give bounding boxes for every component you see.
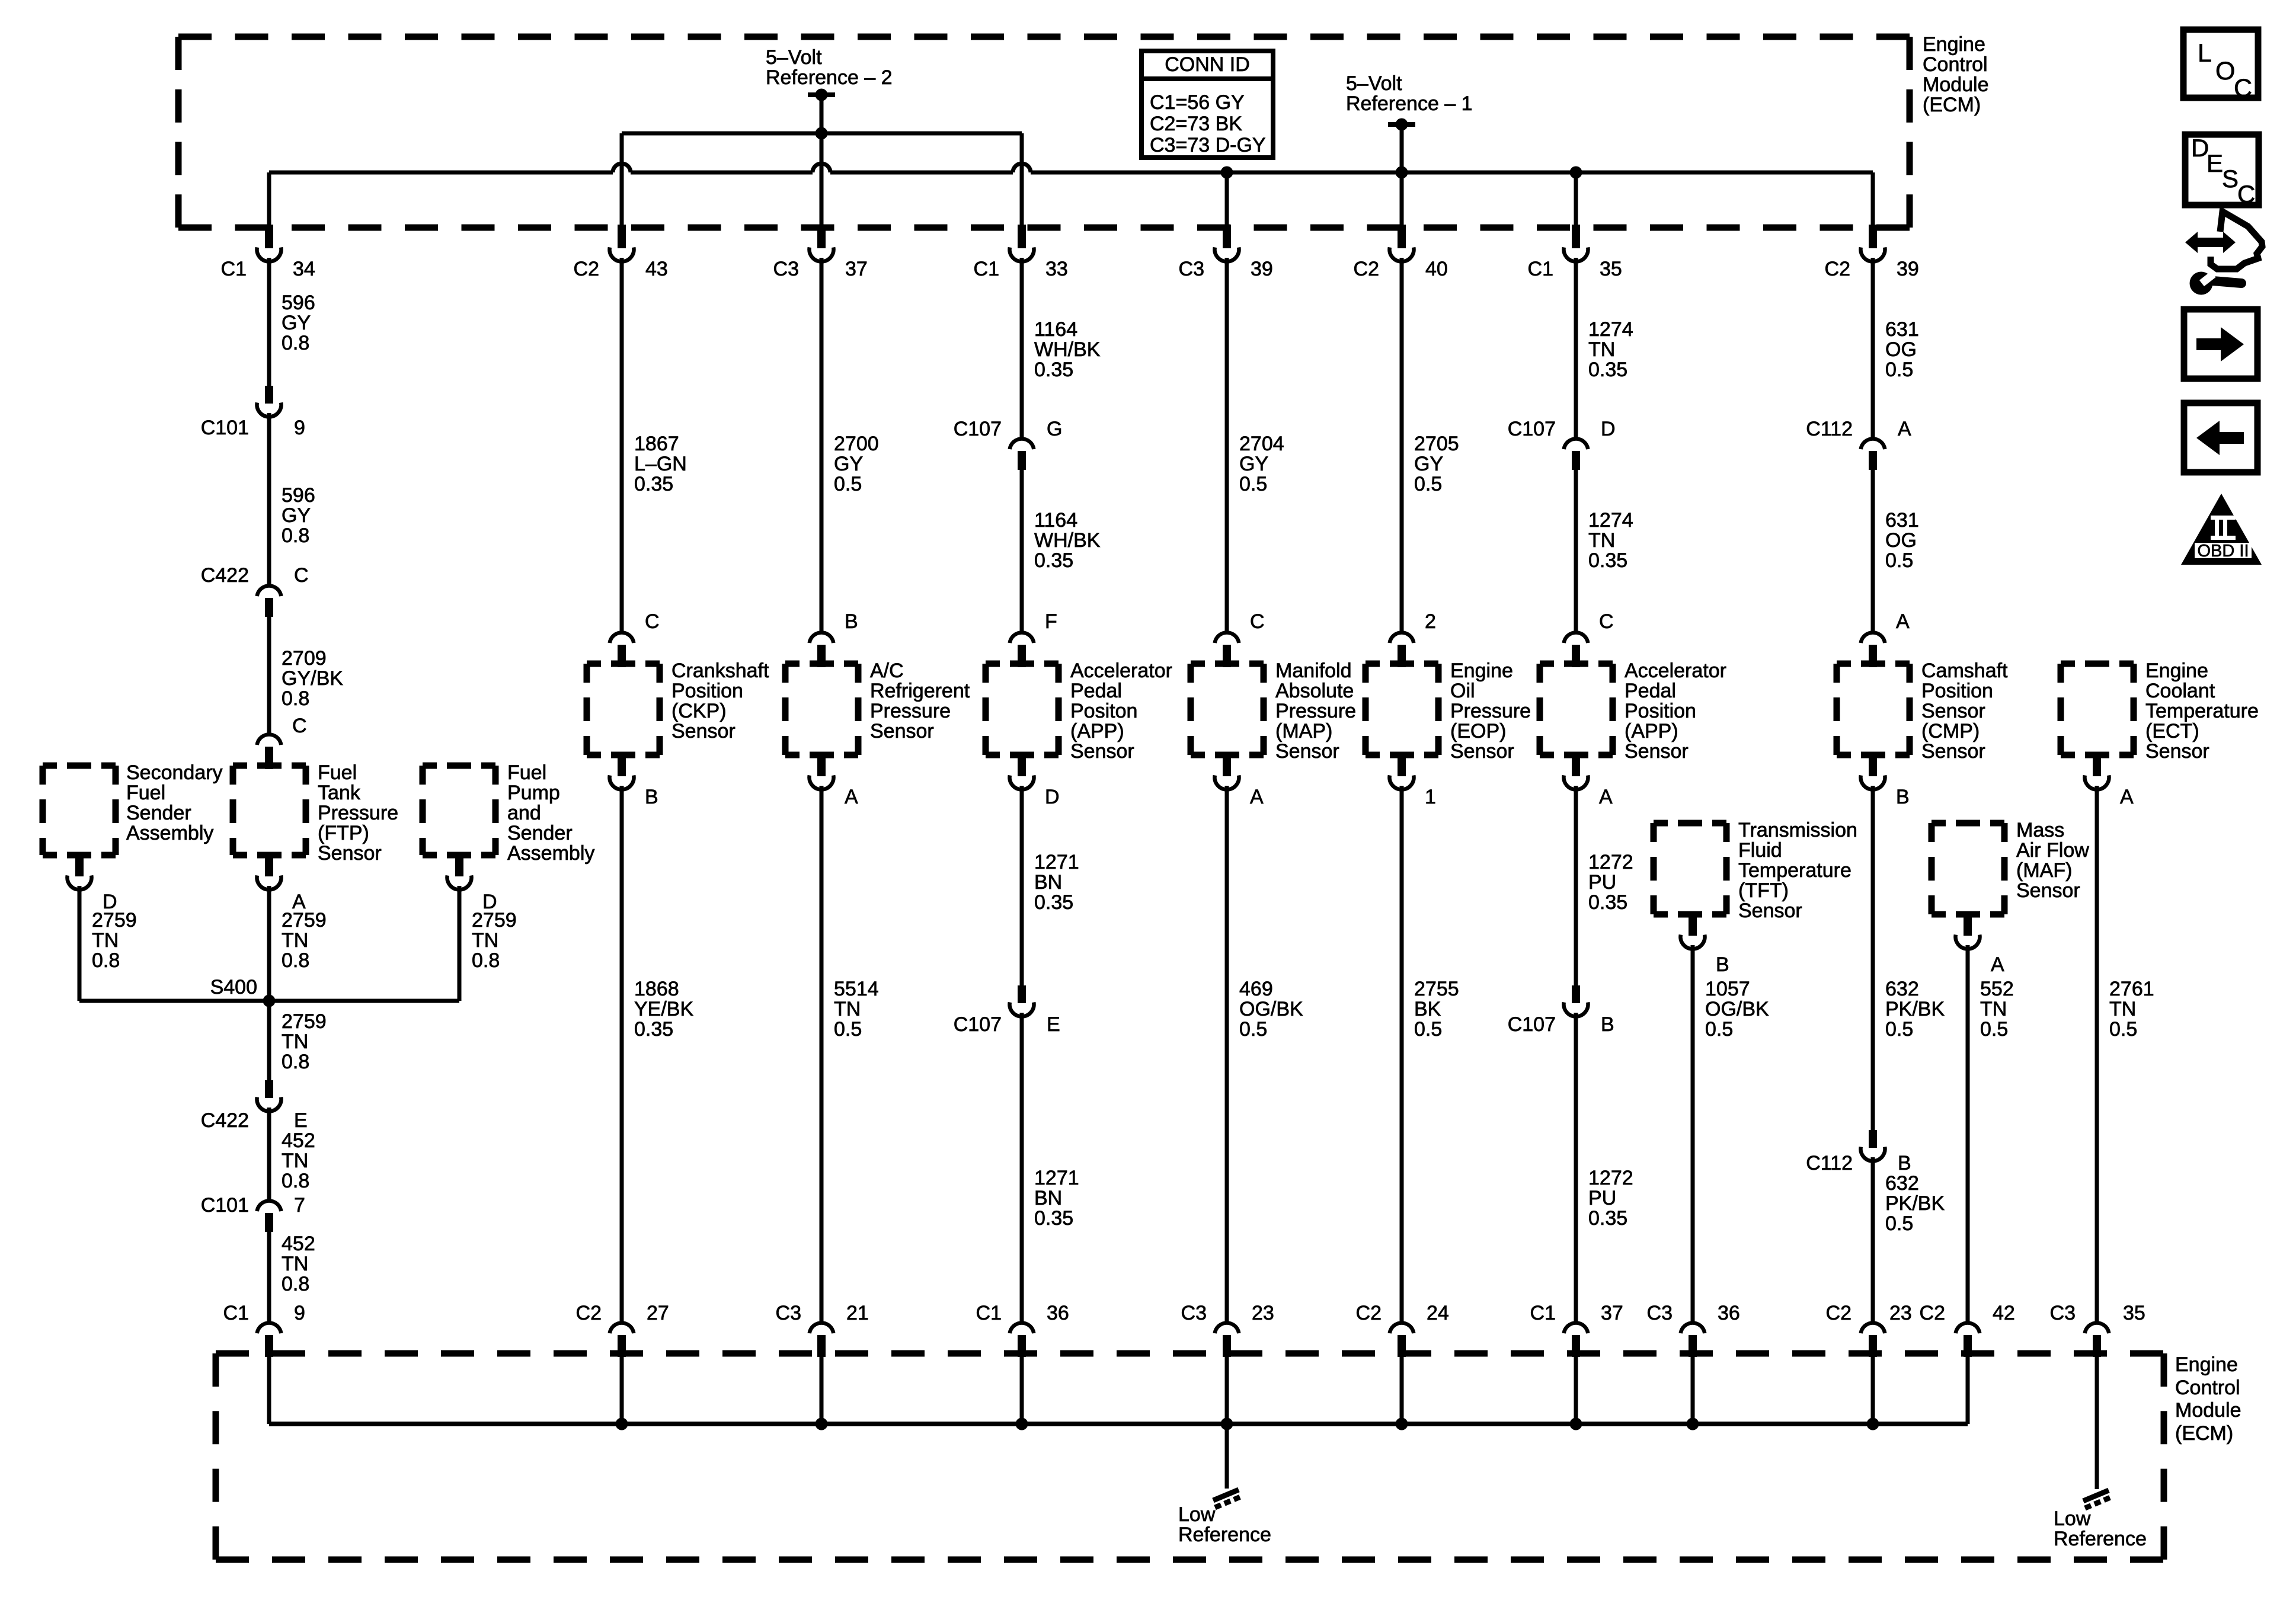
wire TFT to ECM C3-36 [1691, 945, 1695, 1322]
svg-text:C2: C2 [1825, 258, 1850, 280]
svg-text:0.35: 0.35 [1034, 1207, 1073, 1230]
svg-text:0.8: 0.8 [282, 1170, 309, 1192]
svg-text:23: 23 [1252, 1302, 1274, 1324]
svg-text:C1: C1 [1530, 1302, 1556, 1324]
svg-text:0.8: 0.8 [282, 687, 309, 710]
wire col1 C101 to C422 [267, 413, 271, 585]
Engine Coolant Temperature (ECT) Sensor dashed box [2061, 661, 2134, 667]
svg-text:C101: C101 [201, 1194, 249, 1217]
svg-text:C112: C112 [1806, 1152, 1853, 1174]
icon DESC box [2185, 134, 2259, 208]
connector pin C (FTP sensor entry) [257, 734, 282, 769]
svg-text:27: 27 [647, 1302, 669, 1324]
wire C3-35 into ECM to bus [2095, 1357, 2099, 1489]
connector C107 pin G inline [1010, 438, 1034, 470]
Fuel Pump and Sender Assembly dashed box [423, 763, 495, 769]
connector C422 pin C inline [257, 585, 282, 617]
connector pin B (sensor exit) [610, 753, 634, 789]
wire C422-E down to C101-7 [267, 1108, 271, 1200]
svg-text:Pressure: Pressure [318, 802, 398, 824]
connector pin B (TFT exit) [1681, 913, 1705, 949]
svg-text:Fuel: Fuel [507, 761, 546, 784]
svg-text:0.5: 0.5 [1414, 1018, 1442, 1041]
svg-text:Temperature: Temperature [2145, 700, 2259, 722]
svg-text:Assembly: Assembly [126, 822, 213, 844]
connector pin C (sensor entry) [1215, 632, 1239, 667]
wire col7 from bus B down [1574, 172, 1578, 228]
svg-text:Sensor: Sensor [1738, 900, 1802, 922]
svg-text:631: 631 [1885, 318, 1919, 341]
node junction bus at C2-23 [1867, 1418, 1879, 1430]
wire 5v-ref-2 stem [820, 95, 824, 133]
wire FTP exit down to S400 [267, 886, 271, 1001]
svg-text:0.5: 0.5 [1239, 473, 1267, 495]
svg-text:D: D [1045, 786, 1060, 808]
wire C2-27 into ECM to bus [620, 1357, 624, 1424]
wire C1-37 into ECM to bus [1574, 1357, 1578, 1424]
svg-text:1272: 1272 [1588, 851, 1633, 873]
svg-text:TN: TN [472, 929, 498, 952]
svg-text:24: 24 [1427, 1302, 1449, 1324]
wire secondary sender down and to S400 [78, 886, 82, 1001]
svg-text:and: and [507, 802, 541, 824]
wire col3 AC exit to ECM C3-21 [820, 786, 824, 1322]
svg-text:OG/BK: OG/BK [1239, 998, 1303, 1020]
connector C3 35 (ECM bottom entry) [2085, 1323, 2109, 1357]
svg-text:B: B [645, 786, 658, 808]
svg-text:O: O [2215, 57, 2235, 85]
svg-text:C3: C3 [776, 1302, 801, 1324]
wire C2-24 into ECM to bus [1400, 1357, 1404, 1424]
wire hop over column C2-43 [613, 164, 631, 172]
svg-text:Absolute: Absolute [1275, 680, 1354, 702]
connector pin C (sensor entry) [610, 632, 634, 667]
svg-text:TN: TN [1980, 998, 2007, 1020]
wire col4 from bus A down [1020, 133, 1024, 228]
svg-text:2704: 2704 [1239, 433, 1284, 455]
wire C1-36 into ECM to bus [1020, 1357, 1024, 1424]
connector pin D (secondary fuel sender exit) [67, 853, 91, 889]
svg-text:GY/BK: GY/BK [282, 667, 343, 690]
svg-text:0.8: 0.8 [282, 949, 309, 972]
svg-text:0.8: 0.8 [282, 524, 309, 547]
svg-text:A: A [1599, 786, 1613, 808]
svg-text:C422: C422 [201, 1109, 249, 1132]
Accelerator Pedal Positon (APP) Sensor dashed box [986, 661, 1059, 667]
svg-text:Engine: Engine [2145, 660, 2208, 682]
svg-text:C3: C3 [1181, 1302, 1207, 1324]
svg-text:Accelerator: Accelerator [1625, 660, 1726, 682]
svg-text:Accelerator: Accelerator [1070, 660, 1172, 682]
connector C3 39 (ECM exit) [1215, 225, 1239, 261]
svg-text:Pump: Pump [507, 782, 560, 804]
svg-text:7: 7 [294, 1194, 305, 1217]
wire col7 APP exit to C107-B [1574, 786, 1578, 985]
svg-text:0.5: 0.5 [834, 1018, 862, 1041]
node junction bus B at MAP column [1221, 167, 1233, 179]
svg-text:Sensor: Sensor [2016, 879, 2080, 902]
svg-text:C3: C3 [1179, 258, 1204, 280]
svg-text:5–Volt: 5–Volt [1346, 72, 1402, 95]
svg-text:Fuel: Fuel [126, 782, 165, 804]
connector C1 37 (ECM bottom entry) [1564, 1323, 1588, 1357]
svg-text:Assembly: Assembly [507, 842, 594, 865]
label 5-Volt Reference - 2 [766, 46, 893, 89]
svg-text:C101: C101 [201, 417, 249, 439]
connector pin 2 (sensor entry) [1390, 632, 1414, 667]
wire C3-36 into ECM to bus [1691, 1357, 1695, 1424]
connector pin A (sensor entry) [1861, 632, 1885, 667]
svg-text:1271: 1271 [1034, 851, 1079, 873]
svg-text:A: A [2120, 786, 2134, 808]
svg-text:C1: C1 [976, 1302, 1002, 1324]
Manifold Absolute Pressure (MAP) Sensor dashed box [1191, 661, 1264, 667]
svg-text:PK/BK: PK/BK [1885, 998, 1945, 1020]
svg-text:0.5: 0.5 [1239, 1018, 1267, 1041]
wire S400 down to C422-E [267, 1001, 271, 1080]
svg-text:0.5: 0.5 [1885, 1212, 1913, 1235]
svg-text:YE/BK: YE/BK [634, 998, 693, 1020]
svg-text:36: 36 [1047, 1302, 1069, 1324]
connector C101 pin 7 inline [257, 1201, 282, 1232]
A/C Refrigerent Pressure Sensor dashed box [785, 661, 858, 667]
connector C1 35 (ECM exit) [1563, 225, 1588, 261]
svg-text:OBD II: OBD II [2197, 542, 2249, 561]
svg-text:BN: BN [1034, 1187, 1062, 1209]
connector C101 pin 9 inline [257, 386, 281, 417]
svg-text:C2: C2 [1920, 1302, 1945, 1324]
svg-text:GY: GY [1414, 453, 1443, 475]
svg-text:0.5: 0.5 [1705, 1018, 1733, 1041]
Camshaft Position Sensor (CMP) dashed box [1837, 661, 1910, 667]
svg-text:Sensor: Sensor [671, 720, 736, 742]
wire col5 C3-39 to MAP entry [1225, 258, 1229, 632]
svg-text:D: D [1601, 418, 1616, 440]
node junction bus at C3-36 [1687, 1418, 1699, 1430]
svg-text:C3: C3 [773, 258, 799, 280]
wire C101-7 down to ECM C1-9 [267, 1232, 271, 1322]
wire col4 C107-G to APP entry [1020, 469, 1024, 632]
svg-text:L: L [2198, 39, 2212, 68]
node junction ref2 on bus A [816, 127, 828, 140]
svg-text:Sensor: Sensor [1921, 740, 1985, 763]
ground (low reference, center) [1213, 1490, 1240, 1507]
svg-text:0.8: 0.8 [282, 332, 309, 354]
svg-text:39: 39 [1897, 258, 1919, 280]
svg-text:35: 35 [1600, 258, 1622, 280]
svg-text:Mass: Mass [2016, 819, 2064, 841]
svg-text:0.35: 0.35 [1588, 359, 1627, 381]
wire col8 C2-39 to C112-A [1871, 258, 1875, 438]
connector pin A (FTP sensor exit) [257, 853, 281, 889]
svg-text:C1: C1 [223, 1302, 249, 1324]
svg-text:C: C [2237, 180, 2255, 208]
wire col6 C2-40 to EOP entry [1400, 258, 1404, 632]
icon double arrow with part outline and wrench [2185, 212, 2262, 295]
wire col3 from bus A down [820, 133, 824, 228]
svg-text:Sensor: Sensor [318, 842, 382, 865]
svg-text:C: C [292, 715, 307, 737]
svg-text:C107: C107 [954, 418, 1002, 440]
svg-text:TN: TN [1588, 529, 1615, 552]
Secondary Fuel Sender Assembly dashed box [43, 763, 116, 769]
wire hop over column C1-33 [1013, 164, 1031, 172]
svg-text:1868: 1868 [634, 978, 679, 1000]
wire S400 horizontal tie [79, 999, 459, 1003]
Crankshaft Position (CKP) Sensor dashed box [587, 661, 660, 667]
Engine Oil Pressure (EOP) Sensor dashed box [1366, 661, 1438, 667]
svg-text:Reference: Reference [2054, 1528, 2147, 1550]
svg-text:Engine: Engine [1923, 33, 1985, 56]
svg-text:TN: TN [1588, 338, 1615, 361]
svg-text:C422: C422 [201, 564, 249, 587]
svg-text:WH/BK: WH/BK [1034, 529, 1101, 552]
svg-text:TN: TN [282, 929, 308, 952]
icon left-arrow box [2184, 403, 2257, 472]
svg-text:Manifold: Manifold [1275, 660, 1352, 682]
svg-text:0.5: 0.5 [1980, 1018, 2008, 1041]
wire C3-21 into ECM to bus [820, 1357, 824, 1424]
svg-text:2755: 2755 [1414, 978, 1459, 1000]
svg-text:(ECM): (ECM) [1923, 94, 1981, 116]
svg-text:(ECT): (ECT) [2145, 720, 2199, 742]
svg-text:(CMP): (CMP) [1921, 720, 1980, 742]
svg-text:Sensor: Sensor [1625, 740, 1689, 763]
svg-text:GY: GY [1239, 453, 1268, 475]
svg-text:Low: Low [2054, 1507, 2091, 1530]
5-volt reference-1 terminal bar [1388, 119, 1415, 131]
connector C3 37 (ECM exit) [810, 225, 834, 261]
connector pin A (sensor exit) [1215, 753, 1239, 789]
svg-text:1164: 1164 [1034, 509, 1077, 532]
node junction bus at C1-37 [1570, 1418, 1582, 1430]
svg-text:Pedal: Pedal [1625, 680, 1676, 702]
connector C422 pin E inline [257, 1080, 281, 1111]
svg-text:Module: Module [1923, 73, 1989, 96]
node junction ref1 on bus B [1396, 167, 1408, 179]
svg-text:42: 42 [1993, 1302, 2015, 1324]
svg-text:C2: C2 [576, 1302, 602, 1324]
svg-text:0.5: 0.5 [834, 473, 862, 495]
svg-text:35: 35 [2123, 1302, 2145, 1324]
svg-text:OG/BK: OG/BK [1705, 998, 1769, 1020]
svg-text:TN: TN [834, 998, 861, 1020]
svg-text:23: 23 [1889, 1302, 1912, 1324]
wire col2 C2-43 to CKP entry [620, 258, 624, 632]
connector C1 9 (ECM bottom entry) [257, 1323, 282, 1357]
svg-text:0.35: 0.35 [1588, 549, 1627, 572]
connector pin A (sensor exit) [810, 753, 834, 789]
svg-text:631: 631 [1885, 509, 1919, 532]
svg-text:(ECM): (ECM) [2175, 1422, 2233, 1445]
svg-text:C2=73 BK: C2=73 BK [1150, 113, 1242, 135]
svg-text:C107: C107 [1508, 1013, 1556, 1036]
svg-text:1271: 1271 [1034, 1167, 1079, 1189]
svg-text:0.35: 0.35 [1588, 891, 1627, 914]
svg-text:S400: S400 [210, 976, 257, 998]
svg-text:Tank: Tank [318, 782, 361, 804]
svg-text:C2: C2 [1356, 1302, 1382, 1324]
wire col4 C107-E to ECM C1-36 [1020, 1013, 1024, 1322]
svg-text:Transmission: Transmission [1738, 819, 1857, 841]
svg-text:B: B [1601, 1013, 1614, 1036]
svg-text:9: 9 [294, 417, 305, 439]
svg-text:Crankshaft: Crankshaft [671, 660, 769, 682]
connector pin D (fuel pump exit) [447, 853, 471, 889]
svg-text:A: A [845, 786, 858, 808]
svg-text:Temperature: Temperature [1738, 859, 1851, 882]
svg-text:GY: GY [834, 453, 863, 475]
svg-text:BK: BK [1414, 998, 1441, 1020]
svg-text:F: F [1045, 610, 1057, 633]
node junction bus at C3-21 [816, 1418, 828, 1430]
svg-text:Reference – 2: Reference – 2 [766, 66, 893, 89]
svg-text:(MAP): (MAP) [1275, 720, 1332, 742]
connector pin B (sensor entry) [810, 632, 834, 667]
connector pin 1 (sensor exit) [1390, 753, 1414, 789]
svg-text:Engine: Engine [1450, 660, 1513, 682]
wire col8 C112-A to CMP entry [1871, 469, 1875, 632]
svg-text:A: A [1896, 610, 1910, 633]
svg-text:C1: C1 [974, 258, 999, 280]
svg-text:C2: C2 [1826, 1302, 1851, 1324]
svg-text:0.5: 0.5 [1885, 1018, 1913, 1041]
wire MAF to ECM C2-42 [1966, 945, 1970, 1322]
svg-text:Sensor: Sensor [870, 720, 934, 742]
wire col8 C112-B to ECM C2-23 [1871, 1157, 1875, 1322]
wire C1-9 into ECM to bus [267, 1357, 271, 1424]
svg-text:37: 37 [1601, 1302, 1623, 1324]
svg-text:GY: GY [282, 504, 311, 527]
svg-text:A: A [1991, 953, 2004, 976]
svg-text:Sensor: Sensor [1070, 740, 1134, 763]
svg-text:PU: PU [1588, 871, 1616, 894]
ground (low reference, right) [2083, 1490, 2110, 1508]
svg-text:BN: BN [1034, 871, 1062, 894]
svg-text:PU: PU [1588, 1187, 1616, 1209]
svg-text:2705: 2705 [1414, 433, 1459, 455]
svg-text:452: 452 [282, 1233, 315, 1255]
svg-text:C: C [294, 564, 309, 587]
svg-text:C3: C3 [1647, 1302, 1673, 1324]
wire col6 from bus B down [1400, 172, 1404, 228]
svg-text:1164: 1164 [1034, 318, 1077, 341]
icon LOC box [2183, 30, 2258, 103]
wire col3 C3-37 to AC sensor entry [820, 258, 824, 632]
node junction bus at C2-24 [1396, 1418, 1408, 1430]
svg-text:Oil: Oil [1450, 680, 1475, 702]
connector C3 36 (ECM bottom entry) [1681, 1323, 1705, 1357]
svg-text:L–GN: L–GN [634, 453, 687, 475]
svg-text:34: 34 [293, 258, 315, 280]
connector C107 pin E inline [1010, 985, 1034, 1016]
svg-text:(FTP): (FTP) [318, 822, 369, 844]
connector C2 27 (ECM bottom entry) [610, 1323, 634, 1357]
connector C107 pin B inline [1563, 985, 1588, 1016]
svg-text:0.8: 0.8 [282, 1051, 309, 1073]
svg-text:2761: 2761 [2109, 978, 2154, 1000]
wire col5 from bus B down [1225, 172, 1229, 228]
svg-text:469: 469 [1239, 978, 1273, 1000]
svg-text:1057: 1057 [1705, 978, 1750, 1000]
wire fuel pump down to S400 [458, 886, 462, 1001]
svg-text:Coolant: Coolant [2145, 680, 2215, 702]
svg-text:43: 43 [645, 258, 668, 280]
svg-text:C2: C2 [574, 258, 599, 280]
Mass Air Flow (MAF) Sensor dashed box [1932, 820, 2004, 827]
svg-text:(TFT): (TFT) [1738, 879, 1789, 902]
svg-text:Engine: Engine [2175, 1353, 2238, 1376]
svg-text:(MAF): (MAF) [2016, 859, 2072, 882]
svg-text:C1=56 GY: C1=56 GY [1150, 91, 1245, 114]
Accelerator Pedal Position (APP) Sensor dashed box 2 [1540, 661, 1613, 667]
wire col7 C1-35 to C107-D [1574, 258, 1578, 438]
wire C2-42 into ECM to bus [1966, 1357, 1970, 1424]
node junction bus at C3-23 [1221, 1418, 1233, 1430]
svg-text:C: C [1250, 610, 1265, 633]
svg-text:C107: C107 [1508, 418, 1556, 440]
svg-text:39: 39 [1251, 258, 1273, 280]
svg-text:0.8: 0.8 [282, 1273, 309, 1295]
svg-text:Sensor: Sensor [1450, 740, 1514, 763]
icon right-arrow box [2184, 309, 2257, 379]
wire col5 MAP exit to ECM C3-23 [1225, 786, 1229, 1322]
svg-text:2700: 2700 [834, 433, 879, 455]
connector pin C (sensor entry) [1564, 632, 1588, 667]
connector C3 23 (ECM bottom entry) [1215, 1323, 1239, 1357]
svg-text:B: B [845, 610, 858, 633]
svg-text:(APP): (APP) [1625, 720, 1678, 742]
svg-text:C1: C1 [221, 258, 247, 280]
svg-text:0.5: 0.5 [1885, 549, 1913, 572]
svg-text:E: E [1047, 1013, 1060, 1036]
svg-text:Reference – 1: Reference – 1 [1346, 92, 1473, 115]
connector C2 24 (ECM bottom entry) [1390, 1323, 1414, 1357]
wire C2-23 into ECM to bus [1871, 1357, 1875, 1424]
connector pin A (MAF exit) [1956, 913, 1980, 949]
svg-text:C1: C1 [1528, 258, 1553, 280]
CONN ID table [1141, 51, 1273, 158]
connector pin A (ECT exit) [2085, 753, 2109, 789]
wire col4 C1-33 to C107-G [1020, 258, 1024, 438]
connector C2 43 (ECM exit) [610, 225, 634, 261]
svg-text:Sensor: Sensor [1921, 700, 1985, 722]
svg-text:A/C: A/C [870, 660, 904, 682]
svg-text:(EOP): (EOP) [1450, 720, 1506, 742]
svg-text:2709: 2709 [282, 647, 327, 670]
connector pin D (sensor exit) [1010, 753, 1034, 789]
svg-text:C3: C3 [2050, 1302, 2076, 1324]
label Low Reference (right) [2054, 1507, 2147, 1550]
svg-text:2759: 2759 [92, 909, 137, 932]
svg-text:1272: 1272 [1588, 1167, 1633, 1189]
svg-text:33: 33 [1045, 258, 1068, 280]
svg-text:Pedal: Pedal [1070, 680, 1122, 702]
svg-text:1274: 1274 [1588, 318, 1633, 341]
wire col2 CKP exit to ECM C2-27 [620, 786, 624, 1322]
label Low Reference (center) [1178, 1503, 1271, 1546]
svg-text:9: 9 [294, 1302, 305, 1324]
connector C2 42 (ECM bottom entry) [1956, 1323, 1980, 1357]
wire ground stub center [1225, 1424, 1229, 1489]
connector C107 pin D inline [1564, 438, 1588, 470]
wire ECT down to ECM C3-35 [2095, 786, 2099, 1322]
svg-text:596: 596 [282, 292, 315, 314]
svg-text:B: B [1716, 953, 1729, 976]
connector C112 pin A inline [1861, 438, 1885, 470]
svg-text:0.35: 0.35 [1588, 1207, 1627, 1230]
svg-text:Positon: Positon [1070, 700, 1137, 722]
